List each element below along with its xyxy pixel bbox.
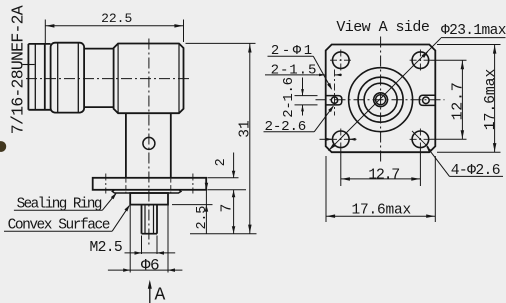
label phi23.1max with underline <box>441 37 506 39</box>
dimension 2.5 line and arrows <box>205 181 207 190</box>
dimension M2.5 line and label <box>125 252 176 254</box>
diagonal centerline through bottom-right hole <box>412 131 429 148</box>
dimension 17.6max horizontal line <box>326 215 435 217</box>
stem hidden lines through flange <box>125 179 127 193</box>
svg-text:22.5: 22.5 <box>101 11 132 26</box>
svg-text:Φ6: Φ6 <box>141 256 159 274</box>
svg-text:17.6max: 17.6max <box>351 202 411 218</box>
mounting hole top-left <box>333 52 350 69</box>
center circle 2 <box>358 77 403 122</box>
svg-text:2: 2 <box>214 158 229 166</box>
svg-text:A: A <box>155 285 166 303</box>
svg-text:2-2.6: 2-2.6 <box>265 119 307 135</box>
svg-text:Φ23.1max: Φ23.1max <box>441 23 506 39</box>
mounting hole bottom-right <box>412 131 429 148</box>
slot left vertical centerline <box>334 70 336 116</box>
svg-text:View A side: View A side <box>336 19 430 36</box>
svg-text:2-1.5: 2-1.5 <box>271 62 318 78</box>
diagonal dimension phi23.1max line with arrows <box>328 38 440 151</box>
dimension 22.5 (top width) <box>44 20 46 44</box>
mounting hole bottom-left <box>333 131 350 148</box>
center circles: outer boss phi23.1 <box>349 68 413 132</box>
small hole phi1 left <box>331 97 337 103</box>
dimension 2-1.6 extension lines and arrows <box>295 95 318 97</box>
stem below block <box>125 113 127 178</box>
svg-text:M2.5: M2.5 <box>90 240 122 256</box>
dimension 17.6max vertical line <box>494 45 496 153</box>
svg-text:12.7: 12.7 <box>368 166 399 183</box>
stray dark blob at left edge <box>0 141 6 152</box>
dimension M2.5 extension lines <box>141 236 143 255</box>
side slot left (2-1.5 feature) <box>326 96 342 105</box>
flange hole centerlines (side view) <box>105 174 107 194</box>
small hole phi1 right <box>423 97 430 104</box>
dimension 7 line (flange bottom to stud end) <box>233 190 235 234</box>
convex surface boss <box>130 193 168 205</box>
dimension 12.7 horizontal line <box>341 178 421 180</box>
dimension 2.5 extension line at convex surface bottom <box>172 204 213 206</box>
connector front face section (7/16 interface) <box>27 44 29 110</box>
svg-text:2.5: 2.5 <box>195 206 210 230</box>
centerline: flange vertical axis <box>380 37 382 162</box>
coupling nut (knurled) with chamfered corners <box>51 43 85 113</box>
dimension 2 line and arrow <box>233 153 235 178</box>
dimension 17.6max vertical extension lines <box>437 44 501 46</box>
dimension 12.7 horizontal extension lines <box>340 150 342 187</box>
dimension 12.7 vertical line <box>461 60 463 139</box>
svg-text:7/16-28UNEF-2A: 7/16-28UNEF-2A <box>9 5 28 134</box>
svg-text:31: 31 <box>237 120 253 137</box>
dimension phi6 extension lines <box>129 205 131 273</box>
dimension 31 line <box>249 43 251 233</box>
sealing ring band under flange <box>112 190 181 193</box>
dimension 12.7 vertical extension lines <box>431 59 467 61</box>
dimension 17.6max horizontal extension lines <box>325 156 327 222</box>
leader tick for thread callout <box>23 64 35 66</box>
square flange outline with chamfered corners <box>326 45 436 153</box>
center circle: pin <box>376 95 386 105</box>
mounting flange plate <box>93 178 207 190</box>
square body block with chamfered corners <box>114 44 184 114</box>
dimension arrows at bottom-left hole (hole diameter) <box>320 138 333 140</box>
cross hole in stem <box>143 137 155 149</box>
M2.5 threaded stud <box>141 205 143 234</box>
svg-text:12.7: 12.7 <box>449 82 466 121</box>
dimension 31 (overall height) extension lines <box>186 42 256 44</box>
svg-text:2-1.6: 2-1.6 <box>281 77 297 118</box>
side slot right <box>419 95 435 105</box>
centerline: connector axis (horizontal) <box>26 78 191 80</box>
mounting hole top-right <box>412 52 429 69</box>
dimension 2 (flange thickness) extension lines <box>208 177 239 179</box>
centerline: block vertical axis <box>148 39 150 247</box>
center circle 3 <box>364 83 397 116</box>
dimension 2-1.5 arrows at slot <box>315 74 325 76</box>
view arrow A <box>149 283 151 303</box>
body cylinder between nut and block <box>84 48 114 50</box>
center circle: insulator <box>374 93 388 107</box>
dimension phi6 line and label <box>108 269 182 271</box>
svg-text:17.6max: 17.6max <box>483 69 499 131</box>
centerline: flange horizontal axis <box>316 99 445 101</box>
svg-text:7: 7 <box>220 204 236 213</box>
